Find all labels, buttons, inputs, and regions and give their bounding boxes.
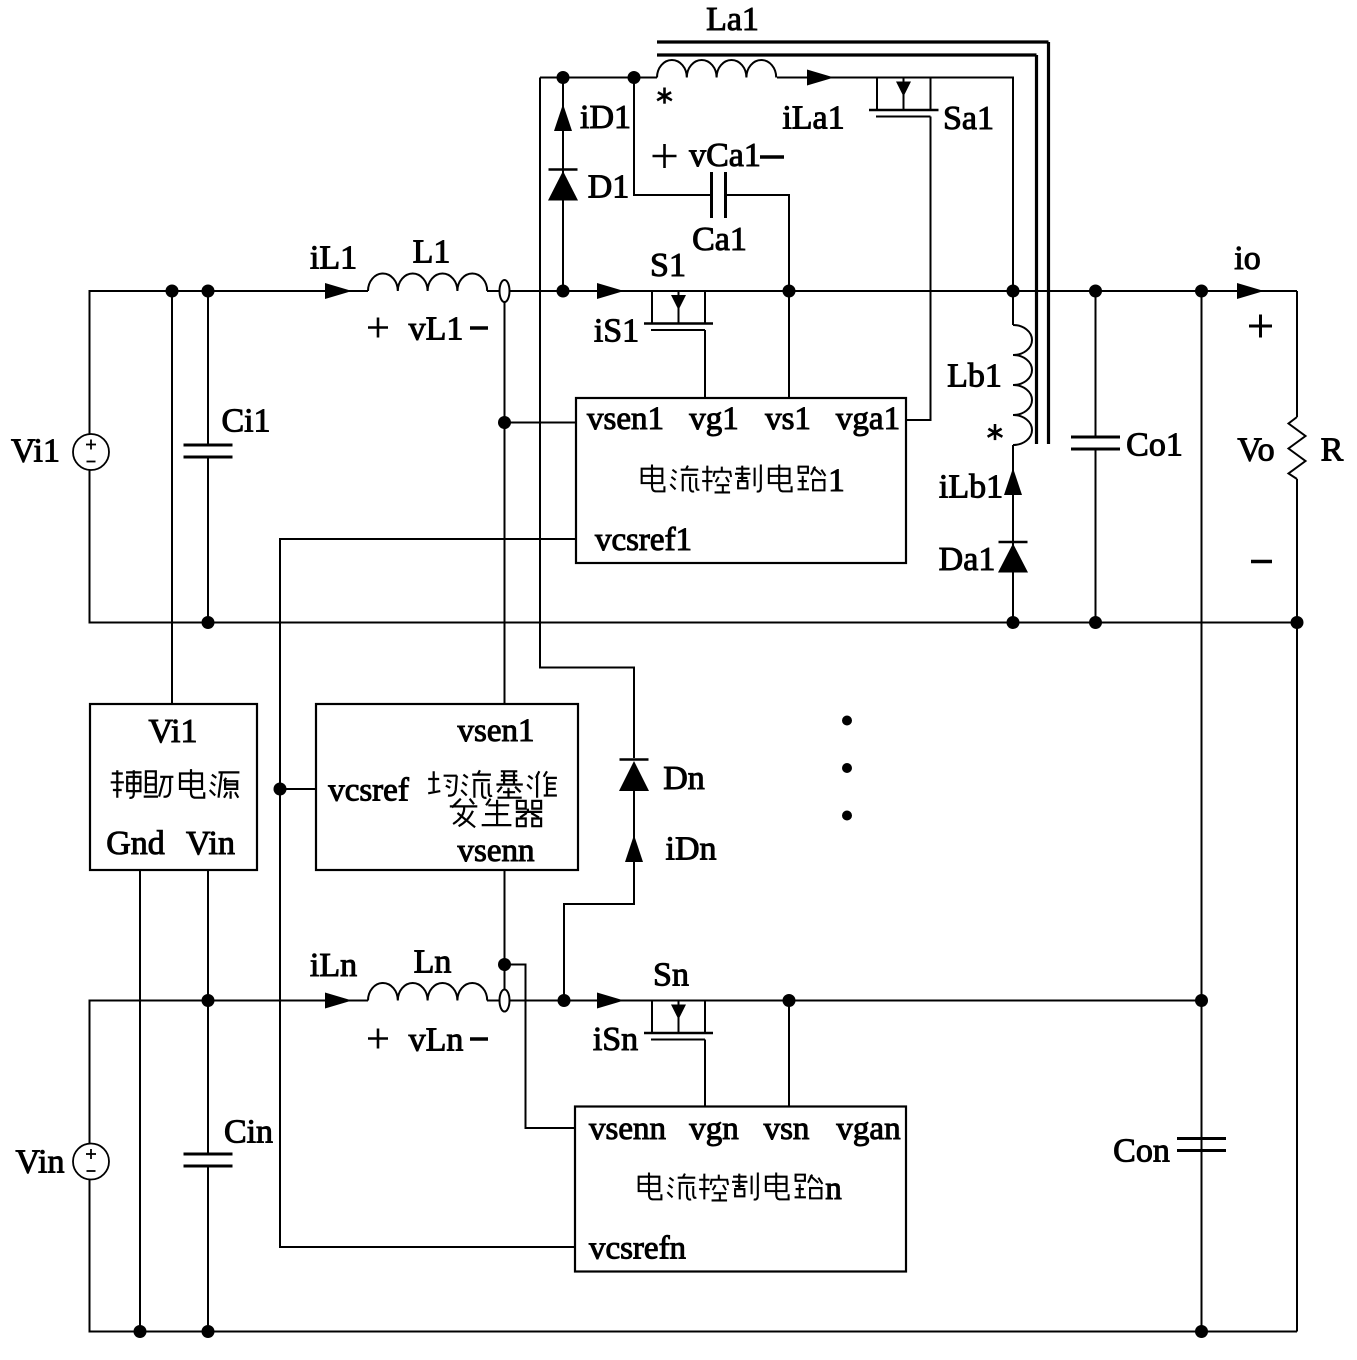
capacitor Co1 branch (1095, 291, 1097, 437)
svg-text:vs1: vs1 (765, 401, 811, 437)
capacitor Ci1 (184, 444, 233, 447)
diode Dn (620, 758, 649, 761)
box title: current control circuit n (CJK) (639, 1173, 662, 1200)
wire: vsen1 pin wire (505, 422, 577, 424)
node: vcsref bus junction (274, 783, 287, 796)
node: rail/Vi1 aux tap (166, 285, 179, 298)
label + vCa1 - (653, 155, 677, 158)
current arrow iLa1 (807, 70, 834, 86)
bottom bus of converter 1 (90, 622, 1298, 624)
main rail converter 1 (right of L1) (487, 290, 1297, 292)
wire: Dn feed from top bus down-left jog (540, 78, 634, 759)
svg-text:vga1: vga1 (836, 401, 900, 437)
label + (output) (1249, 325, 1272, 328)
node: rail/output bus (1195, 285, 1208, 298)
wire: vsn pin wire (788, 1001, 790, 1107)
auxiliary power supply box (90, 704, 257, 870)
wire: Vin pin down to converter n input (207, 870, 209, 1001)
node: rail/Lb1-Sa1 branch (1007, 285, 1020, 298)
wire: S1 gate to vg1 pin (704, 330, 706, 398)
wire: Sa1 gate to vga1 (906, 117, 931, 421)
svg-text:iS1: iS1 (594, 313, 639, 350)
label + vLn - (368, 1037, 388, 1040)
wire: load return to ground rail (1296, 623, 1298, 1332)
svg-text:vL1: vL1 (409, 311, 464, 348)
svg-text:vcsref: vcsref (328, 772, 409, 808)
voltage source Vi1 (73, 434, 109, 470)
ground rail (90, 1331, 1298, 1333)
capacitor Cin (184, 1153, 233, 1156)
svg-text:iLa1: iLa1 (782, 100, 844, 137)
node: ground/Cin (202, 1325, 215, 1338)
wire: top bus from D1 branch corner to Sa1 (540, 77, 634, 79)
svg-text:L1: L1 (413, 234, 451, 271)
svg-text:vLn: vLn (409, 1022, 464, 1059)
capacitor Ca1 branch wire left (634, 78, 712, 196)
svg-text:S1: S1 (650, 247, 686, 284)
svg-text:Sa1: Sa1 (943, 100, 994, 137)
wire: vcsref pin to bus (280, 788, 316, 790)
capacitor Ca1 (710, 172, 713, 218)
capacitor Ca1 branch wire right (726, 195, 790, 291)
svg-text:vsenn: vsenn (589, 1111, 666, 1147)
svg-text:Cin: Cin (224, 1114, 273, 1151)
svg-text:Gnd: Gnd (106, 825, 165, 862)
node: top bus / D1 cathode (557, 71, 570, 84)
control box: current control circuit 1 (576, 398, 906, 563)
svg-text:vCa1: vCa1 (689, 137, 761, 174)
svg-text:vg1: vg1 (689, 401, 739, 437)
current arrow iS1 (597, 283, 624, 299)
svg-text:vgan: vgan (836, 1111, 900, 1147)
svg-text:Vin: Vin (186, 825, 235, 862)
svg-text:iL1: iL1 (310, 240, 357, 277)
wire: output right edge down through load (1296, 291, 1298, 417)
wire: current sense line to reference generator (504, 302, 506, 704)
current-sharing reference generator box (316, 704, 578, 870)
svg-text:vsen1: vsen1 (458, 713, 535, 749)
node: bus/Co1 (1089, 616, 1102, 629)
label - (output) (1251, 560, 1272, 564)
wire: sense line n up to reference generator (504, 870, 506, 990)
wire: Sa1 source to output node (931, 78, 1014, 292)
polarity mark * for Lb1 (994, 424, 997, 433)
node: ground/Gnd pin (134, 1325, 147, 1338)
node: rail/Co1 (1089, 285, 1102, 298)
inductor Lb1 winding (1012, 291, 1014, 325)
ellipsis dots (repeated phases) (842, 716, 852, 726)
current arrow iD1 (554, 104, 572, 131)
node: rail/D1 anode (557, 285, 570, 298)
svg-text:R: R (1321, 432, 1344, 469)
svg-text:io: io (1234, 240, 1260, 277)
transistor S1 (MOSFET) (652, 290, 705, 292)
svg-text:vsn: vsn (764, 1111, 810, 1147)
wire: vs1 pin wire (788, 291, 790, 398)
svg-text:Lb1: Lb1 (947, 358, 1002, 395)
svg-text:Vo: Vo (1237, 432, 1274, 469)
svg-text:Co1: Co1 (1126, 427, 1183, 464)
svg-text:iDn: iDn (666, 831, 717, 868)
polarity mark * for La1 (663, 88, 666, 97)
svg-text:iSn: iSn (593, 1021, 638, 1058)
wire: Vi1 to input rail (90, 291, 173, 434)
svg-text:iD1: iD1 (580, 99, 631, 136)
wire: Vin minus to ground rail (90, 1180, 141, 1332)
wire: Vi1 minus to bottom bus (90, 470, 209, 623)
inductor La1 core bars (coupled to Lb1) (657, 40, 1049, 43)
svg-text:Con: Con (1113, 1133, 1170, 1170)
current arrow iDn (625, 835, 643, 862)
diode Da1 (999, 541, 1028, 544)
node: rail/Ci1 (202, 285, 215, 298)
svg-text:vgn: vgn (689, 1111, 739, 1147)
wire: aux supply feed (171, 291, 173, 704)
capacitor Co1 (1071, 436, 1120, 439)
node: bus/Ci1 (202, 616, 215, 629)
current sensor on L1 output (500, 280, 510, 302)
wire: R bottom to bottom bus (1296, 479, 1298, 623)
node: top bus / Ca1-La1 branch (628, 71, 641, 84)
current arrow io (1237, 283, 1264, 299)
svg-text:Ln: Ln (414, 944, 452, 981)
main rail converter n (left of Ln) (208, 1000, 368, 1002)
node: rail n/output bus (1195, 994, 1208, 1007)
wire: vcsref bus down to converter n (280, 789, 575, 1247)
wire: vcsref1 to reference bus (280, 539, 576, 789)
wire: shared output bus down to converter n (1201, 291, 1203, 1332)
current arrow iLb1 (1004, 468, 1022, 495)
svg-text:Vi1: Vi1 (11, 433, 60, 470)
svg-text:vsen1: vsen1 (587, 401, 664, 437)
diode D1 (549, 168, 578, 171)
capacitor Cin branch (207, 1001, 209, 1155)
svg-text:vcsrefn: vcsrefn (589, 1230, 686, 1266)
svg-text:La1: La1 (706, 1, 759, 38)
capacitor Ci1 branch (207, 291, 209, 445)
node: ground/output bus (1195, 1325, 1208, 1338)
voltage source Vin (73, 1144, 109, 1180)
node: bus/load return (1291, 616, 1304, 629)
box title: auxiliary power supply (CJK) (111, 770, 142, 798)
svg-text:Vin: Vin (16, 1144, 65, 1181)
control box: current control circuit n (575, 1107, 906, 1272)
wire: vsenn pin wire to control circuit n (505, 965, 576, 1129)
node: rail/Ca1/vs1 (783, 285, 796, 298)
svg-text:Dn: Dn (663, 760, 705, 797)
inductor La1 winding (657, 60, 776, 78)
wire: Sn gate to vgn pin (704, 1040, 706, 1107)
transistor Sn (MOSFET) (652, 1000, 705, 1002)
svg-text:D1: D1 (588, 169, 630, 206)
main rail converter n (right of Ln) (487, 1000, 1202, 1002)
inductor L1 (368, 274, 487, 291)
svg-text:1: 1 (828, 463, 845, 499)
current arrow iLn (325, 993, 352, 1009)
current arrow iL1 (325, 283, 352, 299)
diode D1 branch wire (562, 78, 564, 292)
svg-text:Ca1: Ca1 (692, 221, 747, 258)
node: rail n/Vin-Cin (202, 994, 215, 1007)
current arrow iSn (597, 993, 624, 1009)
svg-text:Ci1: Ci1 (221, 403, 270, 440)
inductor Ln (368, 983, 487, 1001)
svg-text:vsenn: vsenn (458, 833, 535, 869)
svg-text:Da1: Da1 (939, 541, 996, 578)
current sensor on Ln output (500, 990, 510, 1012)
wire: Dn to converter n rail (564, 791, 634, 1001)
transistor Sa1 (MOSFET) (877, 77, 931, 79)
svg-text:n: n (825, 1171, 842, 1207)
box title: current-sharing reference generator (CJK) (428, 771, 457, 795)
svg-text:iLb1: iLb1 (939, 469, 1003, 506)
resistor R (1289, 417, 1306, 479)
wire: Vin plus to converter n rail (90, 1001, 209, 1144)
main rail converter 1 (left of L1) (172, 290, 368, 292)
svg-text:Sn: Sn (653, 957, 689, 994)
node: bus/Da1 (1007, 616, 1020, 629)
wire: Lb1 to Da1 (1012, 445, 1014, 623)
node: rail n/vsn (783, 994, 796, 1007)
svg-text:vcsref1: vcsref1 (595, 522, 692, 558)
node: rail n/Dn return (558, 994, 571, 1007)
node: sense line to control circuit 1 (498, 416, 511, 429)
svg-text:iLn: iLn (310, 947, 357, 984)
label + vL1 - (368, 326, 388, 329)
box title: current control circuit 1 (CJK) (642, 465, 665, 492)
capacitor Con (1177, 1137, 1226, 1140)
svg-text:Vi1: Vi1 (149, 713, 198, 750)
wire: Gnd pin to ground rail (139, 870, 141, 1332)
node: sense line n branch (498, 958, 511, 971)
